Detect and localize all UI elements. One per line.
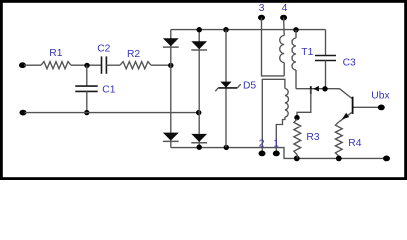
junction R3 bottom <box>294 156 300 162</box>
diode D1 (branch A top) <box>163 38 179 47</box>
svg-text:3: 3 <box>259 3 265 14</box>
wire R2 to bridge <box>151 64 171 66</box>
junction T1 winding B top <box>293 27 298 32</box>
wire T1 winding B entry <box>295 30 297 38</box>
junction D5 top <box>223 27 228 32</box>
capacitor C3 <box>315 30 356 89</box>
terminal node 2 <box>259 151 266 157</box>
diode D2 (branch B top) <box>191 41 207 50</box>
svg-text:R2: R2 <box>127 49 140 60</box>
resistor R3 <box>294 119 320 155</box>
capacitor C1 <box>75 65 115 112</box>
junction branch B mid <box>196 110 201 115</box>
wire D5 branch vertical <box>225 30 227 148</box>
top bus wire <box>171 29 326 31</box>
zener diode D5 <box>215 81 256 92</box>
junction C3 bottom <box>322 86 327 91</box>
svg-text:C1: C1 <box>102 85 115 96</box>
wire Q1 base to Ubx <box>354 106 382 108</box>
terminal top-left input <box>19 62 26 68</box>
junction branch B top <box>197 27 202 32</box>
resistor R1 <box>41 48 71 69</box>
svg-text:R1: R1 <box>49 48 62 59</box>
bottom bus wire <box>171 148 387 159</box>
svg-text:C2: C2 <box>97 44 110 55</box>
border frame <box>1 1 405 178</box>
wire R1 to node <box>71 64 101 66</box>
wire Q1 emitter diagonal <box>339 112 352 122</box>
wire R4 bottom stub <box>338 156 340 158</box>
junction D5 bottom <box>224 145 229 150</box>
transistor Q1 base bar <box>352 97 354 114</box>
svg-text:T1: T1 <box>301 47 313 58</box>
terminal node 1 <box>273 151 280 157</box>
node junction R1/C2/C1 <box>84 63 89 68</box>
wire terminal to R1 <box>24 64 41 66</box>
terminal node 4 <box>280 15 287 21</box>
wire Q1 collector diagonal <box>340 89 353 99</box>
svg-text:4: 4 <box>282 3 288 14</box>
transistor Q2 emitter arrow <box>313 86 319 92</box>
T1 winding B (primary) <box>292 38 296 70</box>
diode D4 (branch B bottom) <box>191 134 207 143</box>
svg-text:Ubx: Ubx <box>371 90 390 101</box>
wire winding B to Q2 <box>295 70 297 89</box>
resistor R4 <box>335 122 361 156</box>
junction C1 bottom <box>84 110 89 115</box>
transistor Q2 base bar <box>310 86 312 94</box>
wire winding C to terminal 1 <box>276 117 285 153</box>
terminal bottom-left input <box>20 110 27 116</box>
svg-text:1: 1 <box>273 139 279 150</box>
wire winding A to corner <box>283 63 285 76</box>
svg-text:R3: R3 <box>306 132 319 143</box>
wire bridge branch B vertical <box>198 30 200 148</box>
wire bridge branch A vertical <box>170 30 172 148</box>
wire node 4 down <box>283 18 286 36</box>
T1 winding C (2-1) <box>285 89 289 118</box>
svg-text:R4: R4 <box>348 138 361 149</box>
svg-text:D5: D5 <box>243 81 256 92</box>
capacitor C2 <box>97 44 110 74</box>
wire bottom input to bridge branch B <box>25 112 199 114</box>
wire R3 bottom stub <box>296 155 298 159</box>
junction R3 top <box>294 115 299 120</box>
terminal node 3 <box>258 15 265 21</box>
wire Q2 base to R3 <box>297 89 311 118</box>
resistor R2 <box>120 49 151 69</box>
svg-text:2: 2 <box>259 139 265 150</box>
junction branch B bottom <box>197 145 202 150</box>
wire Q2 collector-emitter horizontal <box>296 88 340 90</box>
wire C2 to R2 <box>106 64 120 66</box>
junction R4 bottom <box>336 156 342 162</box>
svg-text:C3: C3 <box>343 57 356 68</box>
wire node 3 down <box>262 18 285 76</box>
junction bridge branch A mid <box>168 63 173 68</box>
terminal Ubx <box>378 105 385 111</box>
diode D3 (branch A bottom) <box>163 133 179 142</box>
wire winding 2-1 top <box>262 79 285 153</box>
terminal bottom rail right end <box>383 156 390 162</box>
transistor Q1 emitter arrow <box>342 113 349 119</box>
T1 winding A (3-4) <box>280 36 285 63</box>
